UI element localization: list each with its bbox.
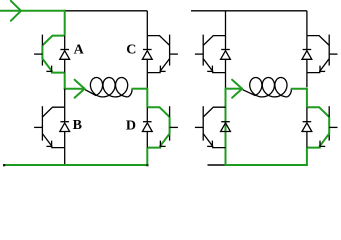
wire: right bridge bottom bus (green) [225,164,308,166]
transistor A collector lead [42,36,64,46]
wire: midpoint to inductor (green) with current arrow [64,88,84,90]
inductor L2 exit lead [287,89,291,97]
transistor D emitter arrowhead [159,141,161,147]
transistor A bar [41,35,43,66]
transistor D bar conducting overlay [169,117,171,134]
diode A triangle [60,51,70,60]
transistor A2 emitter lead [203,59,225,73]
wire: diode D top lead [146,107,148,122]
wire: left leg midpoint to B (black) [64,89,66,108]
transistor D2 gate lead [329,126,337,128]
inductor L1 exit lead [128,89,132,97]
transistor B collector lead [42,107,64,117]
wire: right bridge right leg to midpoint (black) [306,73,308,88]
wire: right leg C-emitter to midpoint (black) [146,73,148,89]
transistor C2 collector lead [307,36,329,46]
wire: diode B top lead [64,107,66,122]
transistor C2 emitter arrowhead [319,66,321,72]
diode B2 bar [221,121,230,123]
transistor B2 collector lead [203,107,225,117]
wire: diode C top lead [146,36,148,50]
transistor A2 gate lead [195,53,203,55]
diode D2 bar [303,121,312,123]
transistor B emitter arrowhead [51,141,53,147]
wire: inductor to right leg midpoint (green) [132,88,148,90]
wire: diode C bottom lead [146,59,148,72]
transistor A2 collector lead [203,36,225,46]
transistor A2 bar [202,35,204,66]
transistor C2 gate lead [329,53,337,55]
diode D triangle [142,123,152,132]
diode B triangle [60,123,70,132]
transistor A emitter arrowhead [51,66,53,72]
diode C triangle [142,51,152,60]
transistor A emitter lead [42,59,64,73]
wire: left bridge bottom bus / output (green) [4,164,148,166]
diode C2 triangle [302,51,312,60]
junction dot: D leg / bottom bus [146,164,148,166]
diode C2 bar [303,49,312,51]
wire: right bridge left leg, freewheel path through diode B' (green) [225,88,227,165]
wire: right bridge left leg to midpoint (black) [225,73,227,89]
diode A bar [60,49,69,51]
transistor B bar [41,106,43,140]
wire: left bridge top bus (black) [65,10,148,12]
wire: right leg midpoint to D (green) [146,88,148,108]
wire: right leg D to bottom bus (green) [146,148,148,165]
transistor C2 bar [328,35,330,66]
wire: right leg D' to bottom bus (green) [306,148,308,165]
transistor C bar [169,35,171,66]
wire: left leg A-emitter to midpoint (green) [64,73,66,90]
transistor D2 bar conducting overlay [328,117,330,134]
wire: right bridge left leg top (black) [225,11,227,36]
transistor A2 emitter arrowhead [211,66,213,72]
wire: diode D bottom lead [146,132,148,148]
transistor D gate lead [170,126,178,128]
inductor L1 coil [85,78,128,97]
transistor C2 emitter lead [307,59,329,73]
wire: right bridge right leg top (black) [306,11,308,36]
transistor B gate lead [34,126,42,128]
wire: left bridge input bus (green, conducting) [0,10,66,12]
diode A2 bar [221,49,230,51]
diode B2 triangle [221,123,231,132]
transistor C gate lead [170,53,178,55]
transistor B2 bar [202,106,204,140]
transistor D collector lead [147,107,169,117]
transistor D2 emitter lead [307,134,329,148]
wire: left leg top segment (green) [64,10,66,36]
wire: diode B bottom lead [64,132,66,148]
diode B bar [60,121,69,123]
wire: right bridge bottom stub (black) [208,164,225,166]
diode C bar [143,49,152,51]
wire: left leg B to bottom bus (black) [64,148,66,165]
transistor C emitter arrowhead [159,66,161,72]
diode D2 triangle [302,123,312,132]
current arrow: right inductor current (green) [226,88,242,90]
transistor D2 bar [328,106,330,140]
wire: right leg midpoint to D' (green) [306,88,308,108]
current arrow: input current direction [11,1,21,11]
transistor C collector lead [147,36,169,46]
transistor A gate lead [34,53,42,55]
svg-text:D: D [126,119,136,134]
wire: diode A top lead [64,36,66,50]
wire: diode A bottom lead [64,59,66,72]
transistor B2 emitter lead [203,134,225,148]
transistor B2 emitter arrowhead [211,141,213,147]
transistor A bar conducting overlay [41,45,43,58]
svg-text:A: A [74,43,85,58]
wire: right leg top segment (black) [146,11,148,36]
inductor L2 coil [243,78,288,97]
diode D bar [143,121,152,123]
diode A2 triangle [221,51,231,60]
wire: right bridge top stub + bus (black) [191,10,307,12]
junction dot: output terminal [3,164,5,166]
wire: inductor L2 to right leg midpoint (green) [291,88,307,90]
transistor D2 emitter arrowhead [319,141,321,147]
transistor D bar [169,106,171,140]
transistor B2 gate lead [195,126,203,128]
transistor C emitter lead [147,59,169,73]
transistor B emitter lead [42,134,64,148]
transistor D emitter lead [147,134,169,148]
svg-text:C: C [126,43,136,58]
svg-text:B: B [73,118,82,133]
transistor D2 collector lead [307,107,329,117]
